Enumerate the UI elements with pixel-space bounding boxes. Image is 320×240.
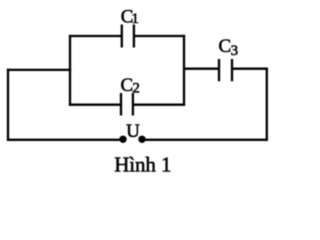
svg-text:C: C xyxy=(219,36,232,57)
svg-text:1: 1 xyxy=(131,11,139,27)
svg-text:Hình 1: Hình 1 xyxy=(114,152,171,175)
svg-text:U: U xyxy=(126,121,140,142)
svg-text:C: C xyxy=(121,75,134,96)
svg-text:2: 2 xyxy=(132,81,140,97)
svg-text:3: 3 xyxy=(231,43,239,59)
